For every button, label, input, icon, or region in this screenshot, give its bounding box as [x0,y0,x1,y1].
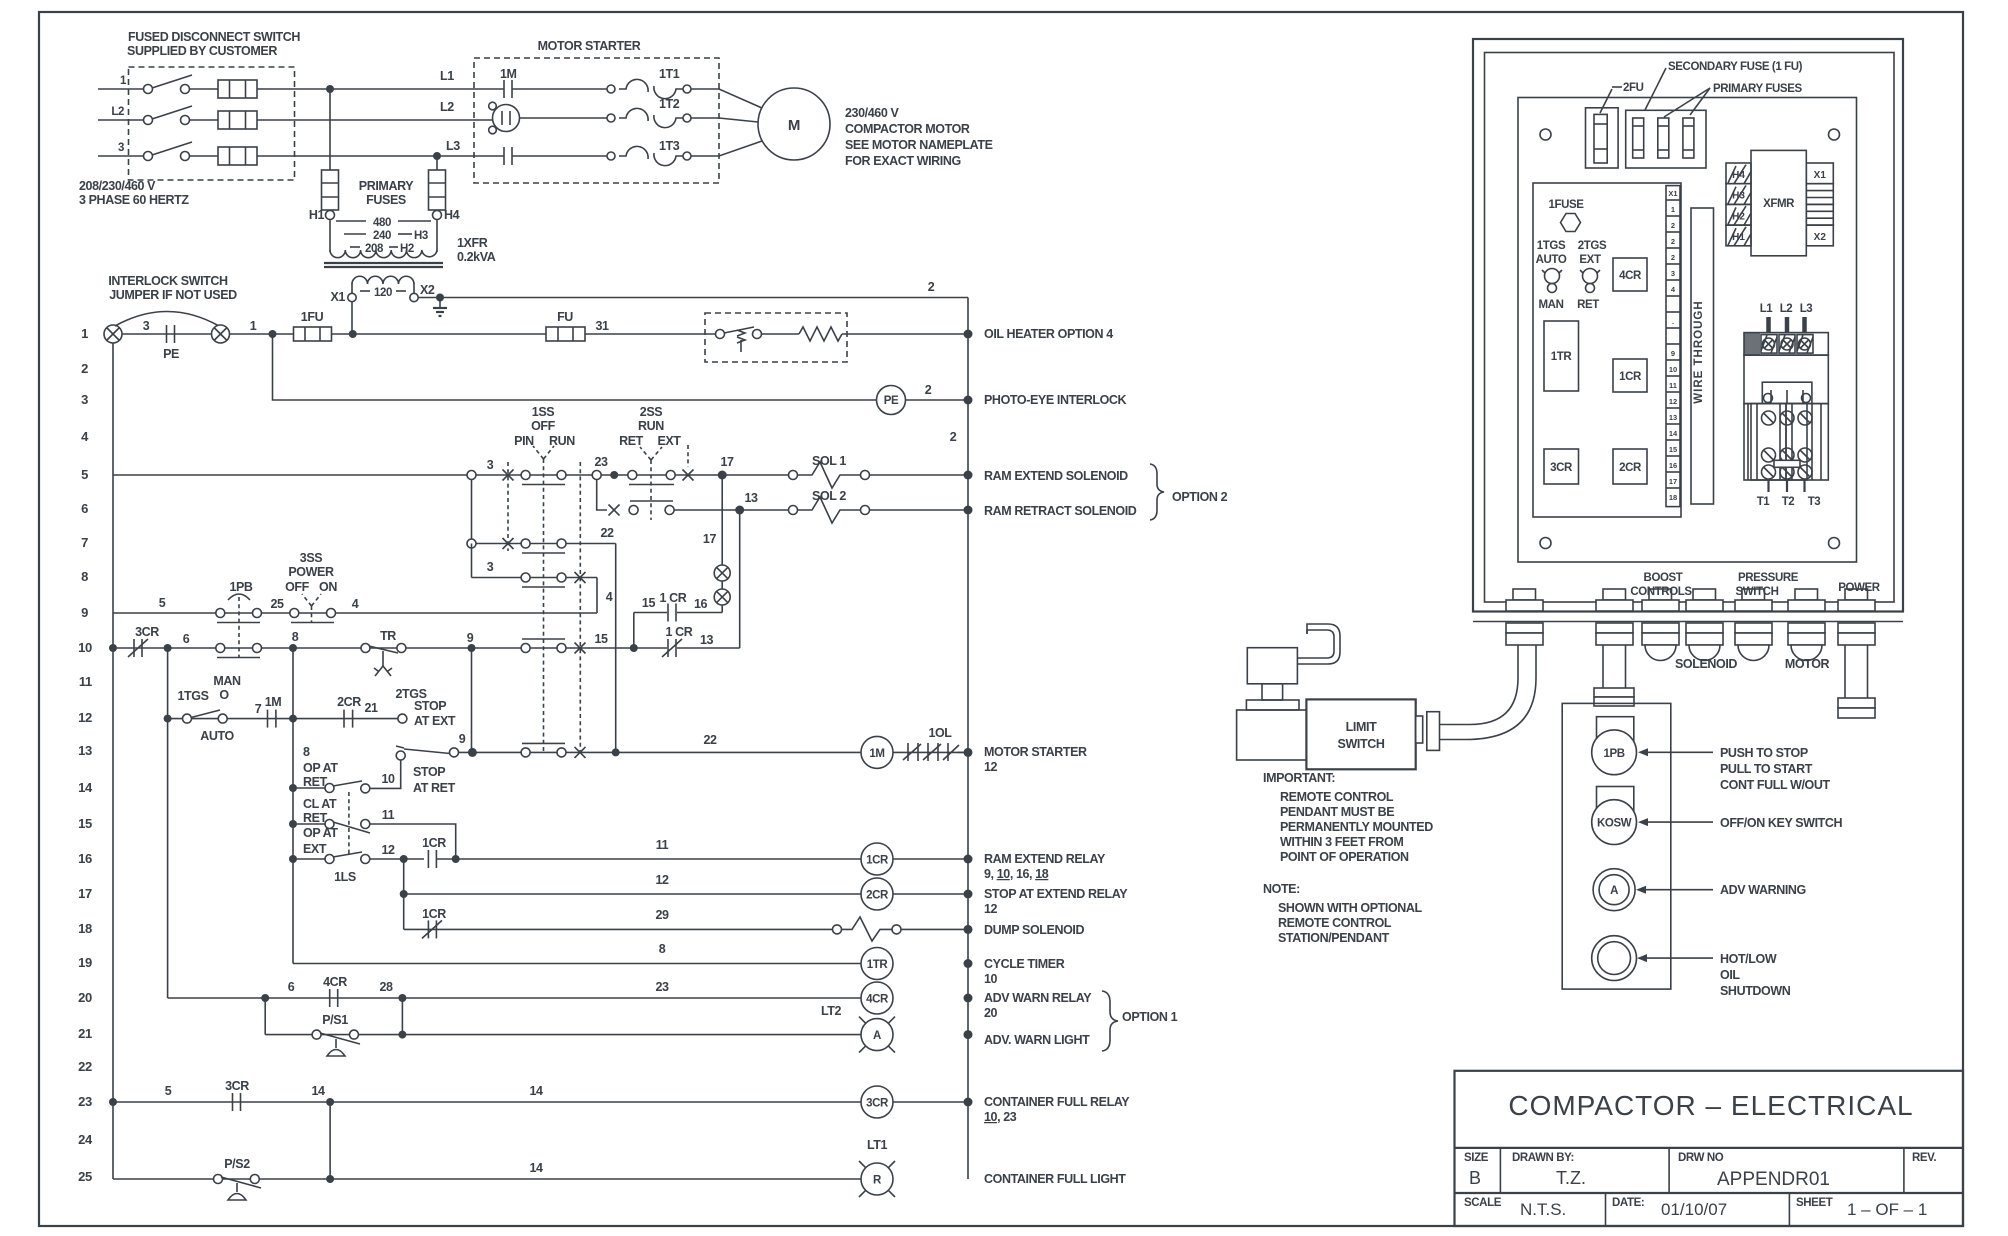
svg-text:FUSES: FUSES [366,193,406,207]
fuse 1FU [294,310,332,341]
svg-text:SCALE: SCALE [1464,1197,1502,1209]
svg-text:24: 24 [78,1132,93,1147]
svg-text:INTERLOCK SWITCH: INTERLOCK SWITCH [108,274,228,288]
svg-text:ADV WARNING: ADV WARNING [1720,883,1806,897]
row numbers [78,326,93,1184]
label push to stop [1720,746,1830,792]
node rung1 X1 [349,330,357,338]
svg-text:5: 5 [81,467,88,482]
terminal 2TGS [395,687,455,728]
svg-text:13: 13 [700,633,714,647]
terminal strip numbered [1666,186,1680,507]
svg-text:10: 10 [1669,365,1677,374]
enclosure door box [1485,53,1895,603]
svg-text:ADV WARN RELAY: ADV WARN RELAY [984,991,1092,1005]
leader key switch [1646,821,1713,823]
svg-text:STOP AT EXTEND RELAY: STOP AT EXTEND RELAY [984,887,1128,901]
wire drop to rung10 [633,613,635,649]
selector 1SS contacts rung8 [521,573,566,587]
svg-text:R: R [873,1175,882,1187]
svg-text:DUMP SOLENOID: DUMP SOLENOID [984,923,1085,937]
contactor body [1744,355,1828,404]
brace option 2 [1150,464,1164,520]
contact X rung7 [503,538,514,549]
rung 20 wire [168,719,861,998]
svg-text:1M: 1M [265,695,282,709]
svg-text:1 – OF – 1: 1 – OF – 1 [1847,1200,1927,1219]
node rail rung23 [964,1098,973,1107]
svg-text:1FU: 1FU [301,310,324,324]
leader push to stop [1646,751,1713,753]
lamp adv warning [1593,869,1635,911]
svg-text:RET: RET [619,434,644,448]
svg-text:3CR: 3CR [1550,462,1573,474]
timer contact TR [361,629,406,676]
contact 3CR [225,1079,249,1111]
svg-text:16: 16 [78,851,92,866]
svg-text:9, 10, 16, 18: 9, 10, 16, 18 [984,867,1049,881]
svg-text:OPTION 2: OPTION 2 [1172,490,1228,504]
svg-text:2FU: 2FU [1623,82,1644,94]
coil 1TR [861,948,893,980]
plate hole top-right [1829,129,1840,140]
svg-text:1CR: 1CR [1619,371,1642,383]
svg-text:11: 11 [1669,381,1677,390]
interlock terminal right [212,325,230,343]
node rail rung1 [964,330,973,339]
contact 3CR NC [128,625,159,657]
svg-text:H3: H3 [1732,191,1745,202]
contact X rung10 [575,632,608,654]
fuse L1 [218,80,257,98]
svg-text:1PB: 1PB [229,580,252,594]
svg-text:REMOTE CONTROL: REMOTE CONTROL [1280,790,1394,804]
svg-text:POWER: POWER [288,565,334,579]
svg-text:480: 480 [373,217,391,229]
relay 3CR box [1544,449,1579,484]
wire rung1 mid [332,333,547,335]
svg-text:POWER: POWER [1838,582,1881,594]
svg-text:1: 1 [1671,205,1675,214]
svg-text:WITHIN 3 FEET FROM: WITHIN 3 FEET FROM [1280,835,1403,849]
coil 4CR [861,982,893,1014]
svg-text:STOP: STOP [414,699,446,713]
svg-text:5: 5 [165,1084,172,1098]
wire 1T1 to motor [691,89,762,108]
interlock terminal left [104,325,122,343]
svg-text:15: 15 [642,596,656,610]
svg-text:13: 13 [1669,413,1677,422]
svg-text:XFMR: XFMR [1763,198,1795,210]
cable gland 1 [1506,589,1543,645]
thermostat switch [716,327,762,352]
svg-text:15: 15 [78,816,92,831]
wire L2 to starter [257,119,493,121]
label note [1263,882,1423,945]
svg-text:APPENDR01: APPENDR01 [1717,1169,1830,1190]
limit switch linkage dashed [348,792,350,856]
rung 23 wire [109,1084,968,1106]
svg-text:1 CR: 1 CR [666,625,693,639]
motor starter dashed enclosure [474,58,719,183]
svg-text:18: 18 [78,921,92,936]
rung 12 wire [168,718,398,720]
svg-text:1LS: 1LS [334,870,356,884]
svg-text:2: 2 [1671,253,1675,262]
leader adv warning [1644,889,1713,891]
svg-text:22: 22 [78,1059,92,1074]
enclosure outer box [1473,39,1903,612]
contactor poles [1744,404,1828,480]
svg-text:25: 25 [270,597,284,611]
svg-text:4CR: 4CR [323,975,347,989]
svg-text:AUTO: AUTO [1536,254,1567,266]
svg-text:HOT/LOW: HOT/LOW [1720,952,1777,966]
solenoid SOL1 [789,454,870,488]
svg-text:4: 4 [81,429,89,444]
relay 4CR box [1613,258,1647,291]
rung 3 wire from node [273,334,877,400]
svg-text:LT1: LT1 [867,1138,888,1152]
svg-text:3: 3 [487,458,494,472]
svg-text:PUSH TO STOP: PUSH TO STOP [1720,746,1808,760]
rung 5 wire [113,474,793,476]
svg-text:N.T.S.: N.T.S. [1520,1200,1566,1219]
XFMR terminal X1 [1806,163,1833,184]
label 120 tap [360,287,406,299]
contact 1M pole1 [504,80,611,98]
svg-text:1CR: 1CR [422,836,446,850]
svg-text:2: 2 [925,383,932,397]
coil 2CR [861,878,893,910]
leader primary fuses [1664,88,1710,117]
wire rung1 to thermostat [585,333,716,335]
rung 9 wire [113,612,597,614]
label oil shutdown [1720,952,1791,998]
svg-text:OP AT: OP AT [303,826,338,840]
overload 1T3 [607,139,691,166]
svg-text:2SS: 2SS [640,405,662,419]
conduit to station [1594,645,1634,706]
node rung5 [610,471,618,479]
svg-text:AUTO: AUTO [200,729,234,743]
svg-text:CONT FULL W/OUT: CONT FULL W/OUT [1720,778,1830,792]
node rail rung16 [964,855,973,864]
enclosure bottom flange [1473,621,1903,623]
coil 1M [861,736,893,768]
svg-text:15: 15 [594,632,608,646]
node 13 rung6 [735,491,758,515]
wire L2 stub [98,119,143,121]
svg-text:PERMANENTLY MOUNTED: PERMANENTLY MOUNTED [1280,820,1433,834]
node rail rung18 [964,925,973,934]
wire 22 vertical [615,544,617,752]
selector 1SS linkage dashes [507,462,509,551]
rung 13 switch stop at ret [396,746,459,795]
svg-text:2CR: 2CR [1619,462,1642,474]
svg-text:7: 7 [255,702,262,716]
rung 21 wire [265,998,861,1039]
svg-text:ON: ON [319,580,337,594]
selector 3SS contacts rung9 [290,609,336,623]
label important note [1263,771,1433,864]
wire L1 stub [98,88,143,90]
wire 13 vertical [739,510,741,648]
svg-text:SHOWN WITH OPTIONAL: SHOWN WITH OPTIONAL [1278,901,1423,915]
node rail rung21 [964,1030,973,1039]
svg-text:5: 5 [159,596,166,610]
svg-text:4: 4 [352,597,359,611]
rung 17 wire [400,859,968,929]
rung 10 wire [113,647,634,649]
title block dividers row3 [1605,1193,1607,1226]
svg-text:M: M [788,117,800,134]
svg-text:3: 3 [118,142,124,154]
leader oil shutdown [1645,957,1713,959]
svg-text:AT EXT: AT EXT [414,714,456,728]
svg-text:12: 12 [984,760,998,774]
svg-text:1CR: 1CR [422,907,446,921]
svg-text:2: 2 [1671,221,1675,230]
svg-text:3SS: 3SS [300,551,322,565]
svg-text:1CR: 1CR [866,855,889,867]
node 8 rung12 [289,715,297,723]
svg-text:RUN: RUN [549,434,575,448]
contact X rung5 2SS [683,445,694,481]
svg-text:PE: PE [163,347,179,361]
svg-text:12: 12 [381,843,395,857]
node 8 [289,630,299,652]
rung 6 drop wire [597,480,607,511]
svg-text:OIL HEATER OPTION 4: OIL HEATER OPTION 4 [984,327,1113,341]
selector 1SS contacts rung5 [521,471,566,485]
resistor heater [799,327,842,341]
svg-text:20: 20 [78,990,92,1005]
relay 1CR box [1613,359,1647,392]
svg-text:SIZE: SIZE [1464,1152,1489,1164]
contact 1M pole3 [504,147,611,165]
svg-text:17: 17 [720,455,734,469]
node rail rung5 [964,471,973,480]
wire X1 down to rung 1 [351,302,353,334]
svg-text:8: 8 [292,630,299,644]
svg-text:H1: H1 [309,208,325,222]
svg-text:16: 16 [694,597,708,611]
svg-text:RAM RETRACT SOLENOID: RAM RETRACT SOLENOID [984,504,1137,518]
rung 18 wire [404,928,832,930]
node 22 rung13 [612,748,620,756]
transformer 1XFR primary taps [330,217,437,255]
toggle switch 1TGS [1542,269,1562,293]
svg-text:10: 10 [78,640,92,655]
cable gland 6 [1788,589,1825,661]
svg-text:1TR: 1TR [867,959,889,971]
svg-text:4CR: 4CR [1619,270,1642,282]
svg-text:PENDANT MUST BE: PENDANT MUST BE [1280,805,1394,819]
disconnect switch pole 2 [144,106,193,125]
terminal circle rung5 [592,471,601,480]
fuse L2 [218,111,257,129]
svg-text:120: 120 [374,287,392,299]
relay 2CR box [1613,449,1647,484]
node rung20 left [261,994,269,1002]
svg-text:H1: H1 [1732,232,1745,243]
rung 13 wire [458,751,861,753]
contact X rung6 [609,505,620,516]
svg-text:L2: L2 [111,106,124,118]
wire node8 drop [292,648,294,964]
svg-text:14: 14 [1669,429,1678,438]
svg-text:6: 6 [81,501,88,516]
node 9 rung13 [459,648,477,757]
rung 25 wire [113,1102,861,1183]
relay group box [1533,183,1681,517]
wire switch to fuse L1 [189,88,218,90]
svg-text:2CR: 2CR [866,890,889,902]
svg-text:208/230/460 V: 208/230/460 V [79,179,156,193]
svg-text:3: 3 [143,319,150,333]
node 9 rung10 [467,631,476,652]
svg-text:19: 19 [78,955,92,970]
svg-text:14: 14 [78,780,93,795]
svg-text:A: A [873,1030,881,1042]
primary fuse right [429,170,446,220]
XFMR terminal H2 [1726,204,1751,225]
svg-text:L3: L3 [446,139,460,153]
contactor leads bottom [1769,480,1805,492]
leader secondary fuse [1645,68,1666,110]
svg-text:14: 14 [529,1084,543,1098]
svg-text:1XFR: 1XFR [457,236,488,250]
wire resistor to rail [842,333,968,335]
svg-text:3: 3 [81,392,88,407]
conduit power stub [1838,645,1875,718]
fuse 1FUSE hex [1548,199,1584,232]
svg-text:DATE:: DATE: [1612,1197,1644,1209]
svg-text:29: 29 [655,908,669,922]
overload 1OL [893,726,968,761]
svg-text:OIL: OIL [1720,968,1740,982]
svg-text:H2: H2 [1732,211,1745,222]
cable gland 4 [1686,589,1723,661]
svg-text:X1: X1 [1668,189,1677,198]
coil 3CR [861,1086,893,1118]
svg-text:12: 12 [984,902,998,916]
svg-text:LIMIT: LIMIT [1346,720,1377,734]
transformer 1XFR secondary winding [352,276,414,284]
svg-text:STATION/PENDANT: STATION/PENDANT [1278,931,1390,945]
svg-text:10: 10 [984,972,998,986]
svg-text:21: 21 [78,1026,92,1041]
limit switch body [1306,699,1415,769]
ground symbol [433,298,447,317]
svg-text:B: B [1469,1168,1481,1188]
svg-text:13: 13 [744,491,758,505]
rung 19 wire [293,942,861,964]
svg-text:.: . [1672,317,1674,326]
limit switch column labels [303,745,356,884]
svg-text:RET: RET [303,775,328,789]
svg-text:DRW NO: DRW NO [1678,1152,1724,1164]
selector 1TGS [177,674,241,743]
svg-text:1T3: 1T3 [659,139,680,153]
transformer 1XFR primary winding [330,250,437,258]
oil heater thermostat dashed box [705,313,847,362]
pressure switch P/S2 [214,1157,262,1200]
fuse holder 2FU [1586,108,1619,168]
svg-text:1M: 1M [869,748,884,760]
svg-text:SHEET: SHEET [1796,1197,1833,1209]
svg-text:POINT OF OPERATION: POINT OF OPERATION [1280,850,1409,864]
svg-text:12: 12 [1669,397,1677,406]
svg-text:PRIMARY FUSES: PRIMARY FUSES [1713,83,1802,95]
svg-text:1OL: 1OL [928,726,952,740]
dump solenoid [833,917,969,941]
svg-text:PIN: PIN [514,434,534,448]
key switch KOSW [1592,787,1637,845]
svg-text:H3: H3 [414,230,428,242]
node rail rung6 [964,506,973,515]
wire 1T2 to motor [691,118,758,122]
svg-text:X2: X2 [420,283,435,297]
limit switch head [1237,700,1307,760]
contact 1CR NC rung18 [422,907,446,938]
XFMR terminal H1 [1726,225,1751,246]
svg-text:WIRE THROUGH: WIRE THROUGH [1693,300,1705,403]
timer 1TR box [1544,321,1579,391]
svg-text:SECONDARY FUSE (1 FU): SECONDARY FUSE (1 FU) [1668,61,1803,73]
wire to resistor [762,333,800,335]
limit switch contact rung16 [289,843,424,864]
svg-text:1 CR: 1 CR [660,591,687,605]
wire SOL2 to rail [870,509,969,511]
svg-text:8: 8 [659,942,666,956]
svg-text:H4: H4 [1732,170,1745,181]
plate hole top-left [1540,129,1551,140]
svg-text:15: 15 [1669,445,1677,454]
svg-text:1TR: 1TR [1551,351,1573,363]
svg-text:6: 6 [183,632,190,646]
svg-text:SEE MOTOR NAMEPLATE: SEE MOTOR NAMEPLATE [845,138,993,152]
svg-text:L3: L3 [1800,303,1813,315]
node rung1 [269,330,277,338]
svg-text:230/460 V: 230/460 V [845,106,899,120]
svg-text:A: A [1610,885,1618,897]
contactor terminal row [1744,333,1828,356]
svg-text:O: O [219,688,229,702]
svg-text:2CR: 2CR [337,695,361,709]
plate hole bottom-left [1540,538,1551,549]
svg-text:20: 20 [984,1006,998,1020]
node rail rung20 [964,994,973,1003]
svg-text:25: 25 [78,1169,92,1184]
svg-text:1FUSE: 1FUSE [1548,199,1584,211]
selector 2SS contacts rung6 [629,501,674,515]
wire node6 drop to rung12 [167,648,169,719]
svg-text:3: 3 [1671,269,1675,278]
svg-text:OFF: OFF [531,419,556,433]
svg-text:18: 18 [1669,493,1677,502]
svg-text:17: 17 [78,886,92,901]
pushbutton station box [1562,703,1671,989]
svg-text:3CR: 3CR [866,1098,889,1110]
svg-text:MOTOR: MOTOR [1785,657,1830,671]
node junction L1 [326,85,334,93]
wire 17 vertical with lamps [703,475,730,613]
primary fuse left [322,170,339,220]
terminal X1 [331,290,357,304]
svg-text:PULL TO START: PULL TO START [1720,762,1813,776]
